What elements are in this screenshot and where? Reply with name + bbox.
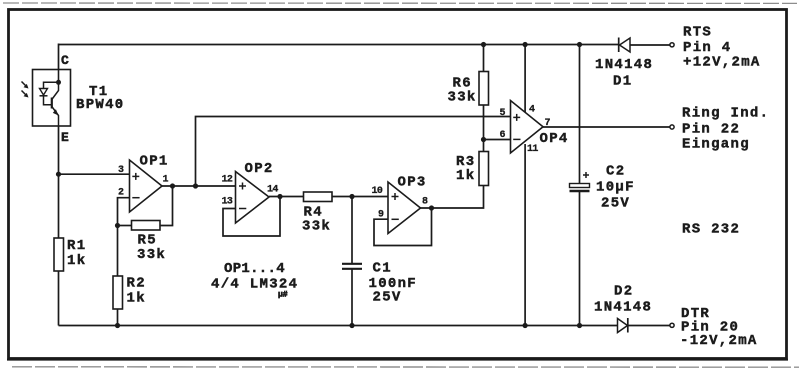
svg-text:D1: D1 [613,74,632,90]
light arrows into T1 [22,82,29,98]
svg-text:Eingang: Eingang [682,137,750,153]
capacitor C2 10uF electrolytic [570,42,635,328]
wire OP3 output to R3 bottom [421,186,484,209]
op-amp OP4 [500,101,569,156]
wire from D1 to RTS terminal [630,44,670,46]
svg-text:E: E [61,130,69,145]
label OP1...4 4/4 LM324 [211,261,298,300]
svg-text:D2: D2 [614,284,633,300]
node C1 tap junction [349,194,354,199]
svg-text:1: 1 [163,174,169,185]
wire OP2 pin13 feedback loop [223,197,280,236]
wire R3 top to pin6 node [483,140,485,152]
svg-text:6: 6 [500,130,506,141]
node OP3 output junction [429,205,434,210]
svg-text:33k: 33k [448,90,477,106]
node R2 bottom junction [115,323,120,328]
svg-text:1N4148: 1N4148 [595,57,653,73]
svg-text:RS 232: RS 232 [682,222,740,238]
wire feedback node down to R2 [117,226,119,277]
wire left vertical from T1 emitter down [58,126,60,238]
diode D2 1N4148 [594,284,652,333]
resistor R1 1k [54,238,86,271]
wire vertical up and rail2 to OP4 pin5 [196,117,511,187]
wire OP1 pin2 to feedback node [118,198,130,226]
svg-text:3: 3 [118,165,124,176]
svg-text:13: 13 [222,196,233,207]
node pin11 bottom rail junction [523,323,528,328]
transistor T1 BPW40 phototransistor [33,53,125,145]
node R6 R3 pin6 junction [481,137,486,142]
op-amp OP1 [118,154,169,213]
svg-text:1N4148: 1N4148 [594,300,652,316]
svg-text:1k: 1k [67,253,86,269]
wire R2 bottom to rail [117,309,119,326]
svg-text:OP1...4: OP1...4 [224,261,285,277]
node output junction to rail2 [193,183,198,188]
wire OP4 pin11 to bottom rail [524,144,526,326]
svg-text:OP1: OP1 [140,154,169,170]
diode D1 1N4148 [595,38,653,90]
svg-text:33k: 33k [137,247,166,263]
svg-text:C: C [61,53,69,68]
svg-text:33k: 33k [302,219,331,235]
label Ring Ind Pin 22 Eingang [682,105,769,152]
svg-text:25V: 25V [373,290,402,306]
label DTR Pin 20 -12V 2mA [680,306,758,349]
svg-text:10µF: 10µF [596,180,635,196]
svg-text:C2: C2 [606,164,625,180]
svg-text:R1: R1 [67,238,86,254]
wire R4 to OP3 pin10 [332,196,388,198]
svg-text:10: 10 [372,186,383,197]
node Ring terminal [670,125,674,129]
node OP2 output junction [277,194,282,199]
svg-text:1k: 1k [127,291,146,307]
svg-text:25V: 25V [601,196,630,212]
svg-text:µ#: µ# [278,291,288,300]
wire OP4 pin4 to top rail [524,45,526,113]
wire OP2 output to R4 [269,196,304,198]
svg-text:RTS: RTS [683,25,712,41]
wire R1 bottom to bottom rail [58,271,60,326]
svg-text:Ring Ind.: Ring Ind. [682,105,769,121]
svg-text:C1: C1 [373,261,392,277]
resistor R5 33k [118,183,176,263]
capacitor C1 100nF [342,197,417,329]
svg-text:-12V,2mA: -12V,2mA [680,333,758,349]
resistor R3 1k [456,152,489,186]
wire OP1 output to OP2 pin12 [162,185,236,187]
svg-text:14: 14 [267,185,278,196]
svg-text:OP3: OP3 [398,175,427,191]
svg-text:OP2: OP2 [245,161,274,177]
svg-text:1k: 1k [456,168,475,184]
op-amp OP2 [222,161,279,223]
node pin4 top rail junction [523,42,528,47]
wire OP3 pin9 feedback loop [374,208,432,246]
wire top supply rail [59,44,619,46]
resistor R4 33k [302,192,332,235]
resistor R2 1k [113,276,146,310]
wire pin6 node to OP4 [484,139,511,141]
node DTR terminal [670,323,674,327]
svg-text:BPW40: BPW40 [76,97,125,113]
svg-text:+12V,2mA: +12V,2mA [683,55,761,71]
svg-text:11: 11 [527,144,538,155]
svg-text:R2: R2 [127,276,146,292]
op-amp OP3 [372,175,429,234]
wire OP1 pin3 input [59,173,130,175]
wire left vertical from top rail to T1 collector [58,44,60,71]
node RTS terminal [670,43,674,47]
svg-text:OP4: OP4 [540,131,569,147]
svg-text:12: 12 [222,175,233,186]
wire D2 to DTR terminal [628,325,670,327]
resistor R6 33k [448,42,489,140]
svg-text:Pin 22: Pin 22 [682,122,740,138]
wire bottom ground rail [59,325,619,327]
wire OP4 output to Ring terminal [543,126,670,128]
svg-text:5: 5 [500,108,506,119]
svg-text:4: 4 [529,104,535,115]
node junction on left vertical at OP1 pin3 tap [56,172,61,177]
label RTS Pin 4 +12V 2mA [683,25,761,71]
node feedback junction [115,223,120,228]
svg-text:8: 8 [422,197,428,208]
